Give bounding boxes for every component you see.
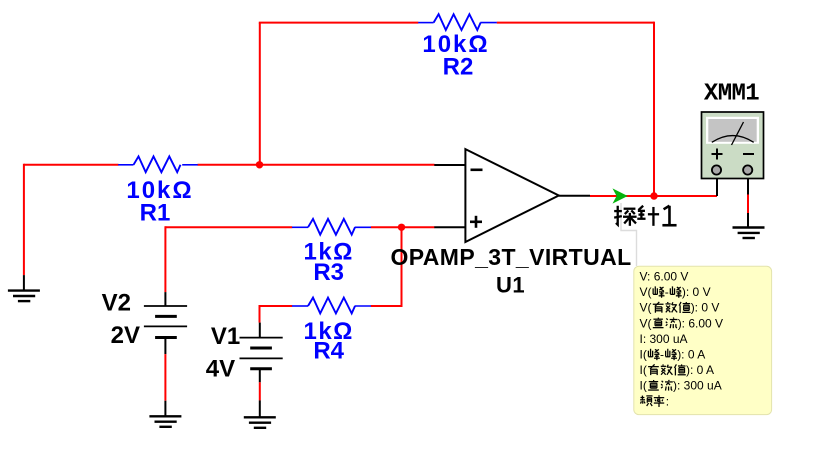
wire: V1 bottom pin (black) [259,369,261,383]
wire: node A down to R4 level [401,227,403,306]
wire: V2 top drop [164,226,166,292]
wire: top rail left of R2 [259,22,419,24]
svg-text:I(: I( [640,379,647,393]
ground (V1) [244,417,276,428]
svg-text:U1: U1 [496,273,525,298]
wire: left ground drop [23,164,25,275]
wire: feedback vertical from input node up to top rail [259,23,261,165]
wire: meter left pin (black) [716,179,718,196]
probe leader line [621,203,637,266]
wire: op-amp output horizontal to meter branch [590,195,717,197]
node: junction at plus input (R3/R4) [398,224,405,231]
wire: V2 to ground (red) [164,354,166,401]
ground (V2) [149,416,181,427]
wire: V1 top drop [259,305,261,323]
svg-text:V2: V2 [102,290,131,317]
svg-text:): 300 uA: ): 300 uA [673,379,722,393]
svg-text:R4: R4 [313,338,344,365]
svg-text:I(: I( [640,348,647,362]
wire: plus rail right of R3 to op-amp plus pin [371,226,435,228]
resistor R1 [118,156,198,172]
wire: meter right red segment [747,195,749,214]
svg-text:): 0 A: ): 0 A [686,363,714,377]
svg-text:I: 300 uA: I: 300 uA [640,332,688,346]
svg-text:): 6.00 V: ): 6.00 V [678,316,723,330]
svg-text:V1: V1 [211,323,240,350]
svg-text:R1: R1 [140,200,171,227]
ground (meter) [733,228,765,239]
wire: V2 ground pin (black) [164,401,166,417]
svg-text:V(: V( [640,316,652,330]
voltage source V1 [240,323,283,369]
readout line V [640,270,724,409]
wire: R4 left lead to V1 drop [260,305,293,307]
readout line frequency [640,396,652,406]
svg-text:R3: R3 [313,259,344,286]
wire: left ground black pin [23,275,25,291]
resistor R3 [292,219,371,235]
svg-text:4V: 4V [206,356,235,383]
svg-text:-: - [665,285,669,299]
wire: V1 to ground (red) [259,382,261,400]
svg-text:XMM1: XMM1 [704,81,759,108]
svg-text:R2: R2 [443,54,474,81]
voltage source V2 [144,292,187,337]
node: junction at R1/R2/op-amp minus [256,161,263,168]
label probe name 探针1 [614,206,676,226]
svg-text::: : [666,394,669,408]
node: junction at output/meter [650,192,657,199]
svg-text:2V: 2V [111,322,140,349]
wire: net V- input rail (left corner to op-amp minus pin) [24,164,435,166]
wire: plus rail left of R3 [165,226,292,228]
resistor R4 [292,298,371,314]
svg-text:-: - [660,348,664,362]
multimeter XMM1 [702,112,764,179]
svg-text:I(: I( [640,363,647,377]
wire: meter right pin upper (black) [747,179,749,195]
svg-text:): 0 V: ): 0 V [691,301,720,315]
wire: R4 right lead to node A drop [371,305,403,307]
ground (left, input rail) [8,291,40,302]
wire: top rail right of R2 to output drop [497,22,654,24]
wire: meter ground pin (black) [747,213,749,228]
probe readout box [634,266,772,414]
svg-text:V: 6.00 V: V: 6.00 V [640,270,689,284]
svg-text:): 0 A: ): 0 A [677,348,705,362]
wire: V2 bottom pin (black) [164,338,166,355]
op-amp U1 [434,149,590,242]
svg-text:OPAMP_3T_VIRTUAL: OPAMP_3T_VIRTUAL [390,244,631,270]
svg-text:V(: V( [640,301,652,315]
wire: V1 ground pin (black) [259,400,261,417]
svg-text:V(: V( [640,285,652,299]
svg-text:): 0 V: ): 0 V [682,285,711,299]
wire: output drop vertical [653,22,655,196]
resistor R2 [418,14,497,30]
probe 探针1 arrow [613,188,628,203]
